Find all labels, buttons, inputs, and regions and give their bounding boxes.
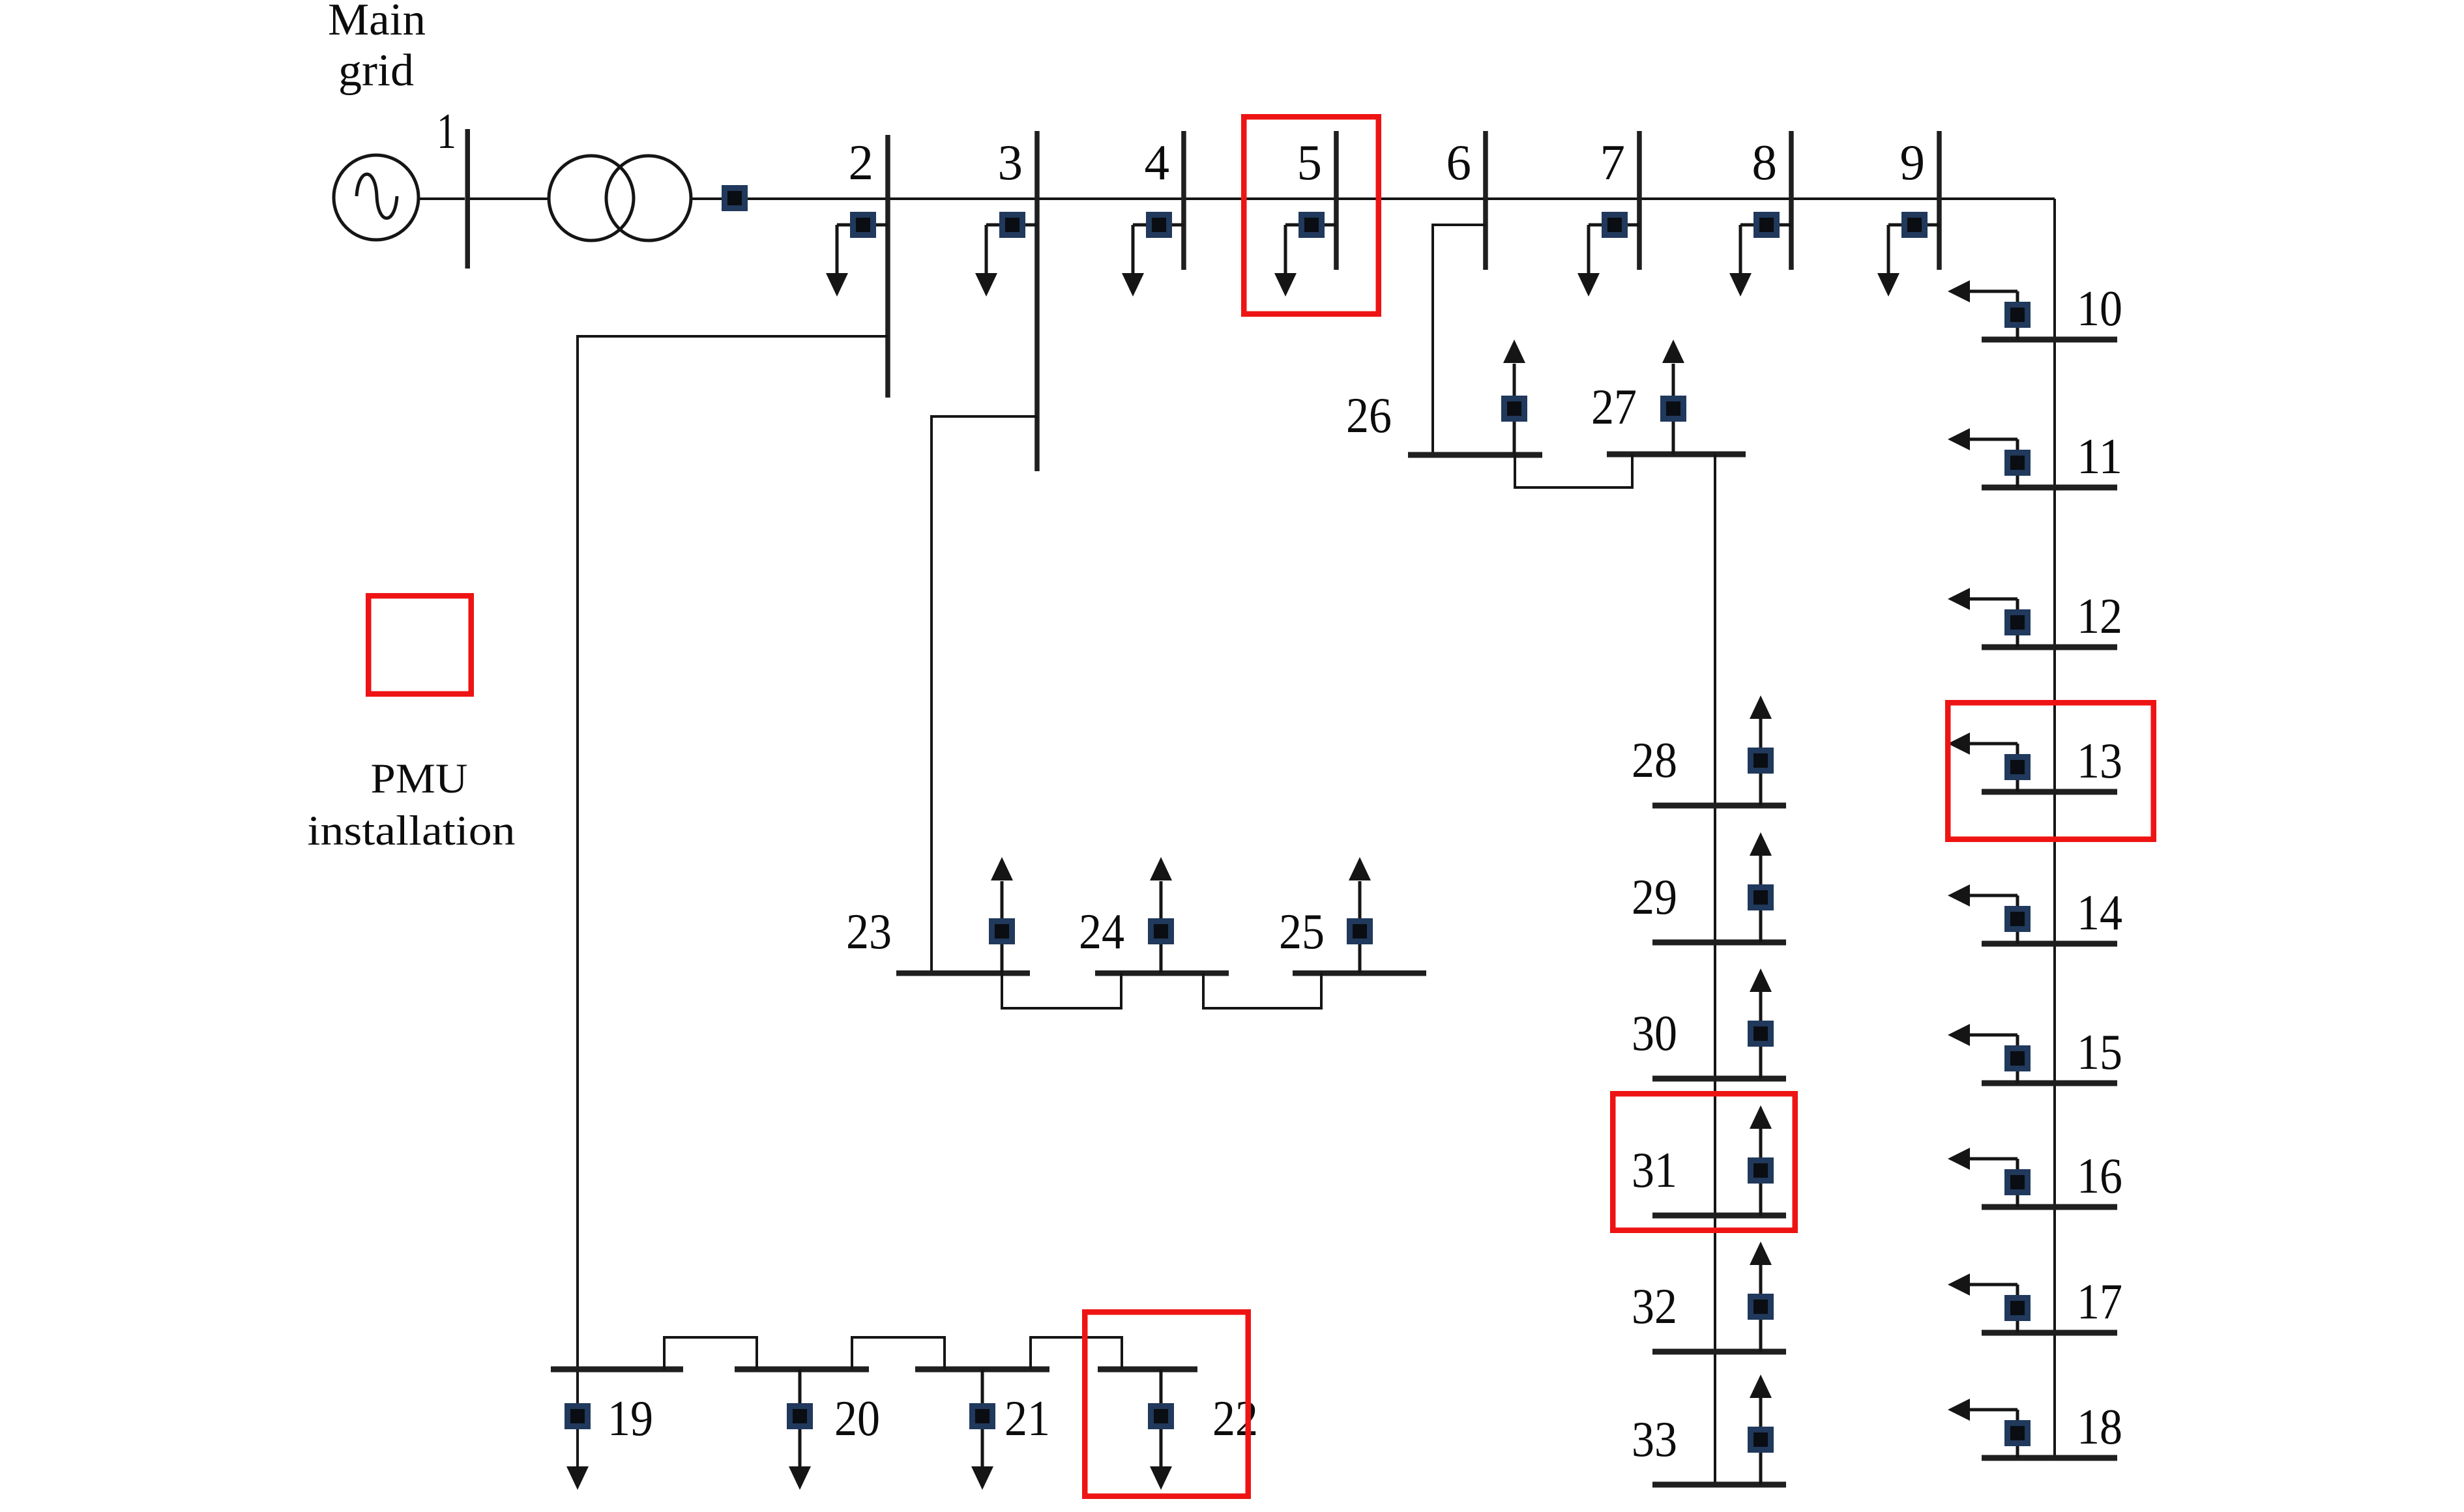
svg-text:PMU: PMU bbox=[371, 755, 468, 802]
svg-text:10: 10 bbox=[2077, 280, 2122, 336]
svg-text:29: 29 bbox=[1632, 869, 1677, 925]
svg-text:6: 6 bbox=[1446, 134, 1472, 190]
svg-text:11: 11 bbox=[2077, 428, 2122, 484]
svg-text:27: 27 bbox=[1591, 379, 1637, 435]
svg-text:32: 32 bbox=[1632, 1278, 1677, 1334]
svg-text:8: 8 bbox=[1752, 134, 1778, 190]
svg-text:15: 15 bbox=[2077, 1024, 2122, 1080]
svg-text:24: 24 bbox=[1079, 903, 1124, 959]
svg-text:19: 19 bbox=[608, 1390, 653, 1446]
svg-text:22: 22 bbox=[1212, 1390, 1258, 1446]
svg-text:16: 16 bbox=[2077, 1148, 2122, 1204]
svg-text:14: 14 bbox=[2077, 884, 2122, 940]
svg-text:20: 20 bbox=[834, 1390, 880, 1446]
svg-text:installation: installation bbox=[308, 807, 516, 854]
svg-text:Main: Main bbox=[328, 0, 426, 45]
svg-text:12: 12 bbox=[2077, 588, 2122, 644]
svg-text:21: 21 bbox=[1005, 1390, 1050, 1446]
svg-text:17: 17 bbox=[2077, 1273, 2122, 1330]
svg-text:4: 4 bbox=[1145, 134, 1170, 190]
svg-text:23: 23 bbox=[846, 903, 892, 959]
svg-text:31: 31 bbox=[1632, 1142, 1677, 1198]
svg-text:33: 33 bbox=[1632, 1411, 1677, 1467]
svg-text:13: 13 bbox=[2077, 733, 2122, 789]
svg-text:grid: grid bbox=[338, 46, 414, 96]
svg-text:9: 9 bbox=[1900, 134, 1926, 190]
svg-text:28: 28 bbox=[1632, 732, 1677, 788]
svg-text:18: 18 bbox=[2077, 1399, 2122, 1455]
svg-text:25: 25 bbox=[1279, 903, 1325, 959]
svg-text:3: 3 bbox=[998, 134, 1023, 190]
svg-text:5: 5 bbox=[1297, 134, 1323, 190]
svg-text:7: 7 bbox=[1600, 134, 1626, 190]
svg-text:1: 1 bbox=[437, 103, 456, 159]
svg-text:26: 26 bbox=[1346, 387, 1392, 443]
svg-text:2: 2 bbox=[849, 134, 874, 190]
svg-text:30: 30 bbox=[1632, 1005, 1677, 1061]
